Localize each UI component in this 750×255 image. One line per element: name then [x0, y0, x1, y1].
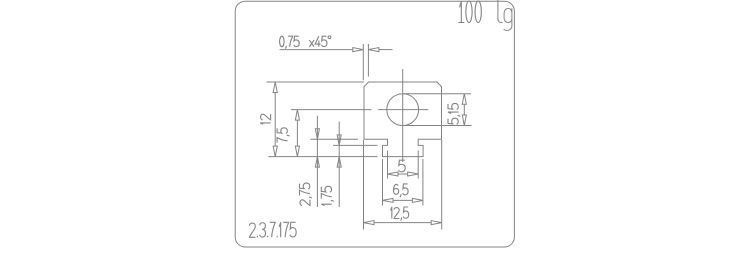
chamfer dimension line right part [379, 49, 393, 51]
extension line neck left [387, 151, 389, 179]
dimension line 5,15 [463, 104, 465, 115]
extension line circle bottom [403, 125, 472, 127]
arrow 12 bottom (down) [273, 146, 277, 157]
dimension line 12,5 [374, 222, 431, 224]
dimension line 1,75 [338, 122, 340, 208]
extension line step1 (2,75) [310, 138, 358, 140]
drawing number 2.3.7.175 [249, 222, 296, 237]
mass value 100 [458, 1, 481, 23]
dimension line 6,5 [393, 199, 412, 201]
extension line body left [363, 140, 365, 230]
arrow 12 top (up) [273, 82, 277, 93]
dimension line 7,5 [296, 120, 298, 146]
label 12,5 [391, 207, 409, 221]
arrow 5 left (points left) [388, 172, 399, 176]
extension line step2 (1,75) [333, 144, 378, 146]
arrow 12,5 right (points right) [431, 221, 442, 225]
drawing sheet border [235, 1, 514, 247]
arrow 5 right (points right) [408, 172, 419, 176]
dimension line 2,75 [316, 116, 318, 207]
label 5 [399, 160, 406, 172]
part outline (stepped block, chamfered top corners) [364, 82, 442, 157]
dimension line 5 [398, 173, 408, 175]
label 0,75 x45deg [280, 36, 331, 49]
letter t (clipped) [498, 0, 503, 23]
label 1,75 (rotated) [321, 186, 333, 205]
chamfer extension line right [367, 44, 369, 77]
arrow 1,75 lower (up at bottom) [337, 157, 341, 168]
arrow 2,75 upper (down at step1) [315, 129, 319, 140]
hole circle [387, 94, 419, 126]
extension line circle top [403, 93, 471, 95]
horizontal centerline segment 1 [291, 109, 372, 111]
label 12 (rotated) [260, 114, 271, 124]
vertical centerline [402, 69, 404, 162]
arrow 5,15 top (up) [462, 94, 466, 105]
arrow 1,75 upper (down at step2) [337, 135, 341, 146]
arrow 7,5 top (up) [295, 110, 299, 121]
extension line flange left [382, 159, 384, 206]
extension line neck right [417, 151, 419, 179]
letter g [504, 8, 512, 30]
chamfer extension line left [362, 44, 364, 80]
arrow 7,5 bottom (down) [295, 146, 299, 157]
label 5,15 (rotated) [448, 103, 460, 124]
chamfer arrow left (points right) [353, 48, 364, 52]
label 2,75 (rotated) [300, 183, 312, 205]
chamfer dimension line left part [280, 49, 353, 51]
label 7,5 (rotated) [277, 128, 289, 143]
extension line bottom edge [269, 156, 378, 158]
extension line flange right [422, 159, 424, 206]
arrow 6,5 right (points right) [412, 198, 423, 202]
dimension line 12 [274, 93, 276, 147]
chamfer arrow right (points left) [368, 48, 379, 52]
extension line body right [441, 140, 443, 230]
extension line top edge [267, 81, 365, 83]
arrow 2,75 lower (up at bottom) [315, 157, 319, 168]
arrow 6,5 left (points left) [383, 198, 394, 202]
label 6,5 [394, 184, 409, 197]
horizontal centerline segment 2 [378, 109, 428, 111]
arrow 12,5 left (points left) [364, 221, 375, 225]
arrow 5,15 bottom (down) [462, 115, 466, 126]
